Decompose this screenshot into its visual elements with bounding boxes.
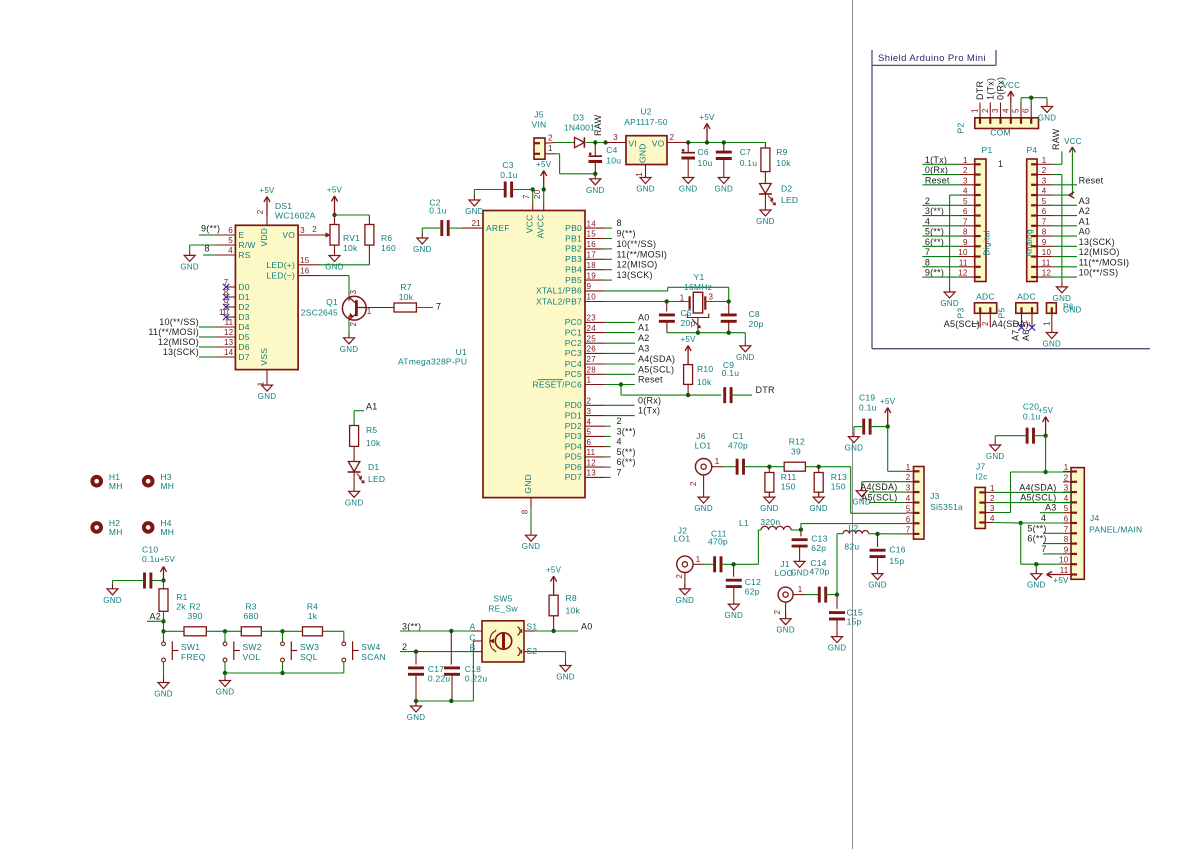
svg-text:MH: MH <box>109 527 123 537</box>
svg-text:1: 1 <box>367 307 372 316</box>
svg-text:GND: GND <box>407 713 426 722</box>
svg-text:4: 4 <box>925 216 930 226</box>
svg-text:A5(SCL): A5(SCL) <box>861 493 897 503</box>
svg-text:P2: P2 <box>956 123 966 134</box>
svg-text:6: 6 <box>1064 515 1069 524</box>
svg-text:GND: GND <box>216 688 235 697</box>
svg-text:3: 3 <box>349 290 358 295</box>
svg-text:1: 1 <box>990 484 995 493</box>
svg-text:J5: J5 <box>534 110 544 120</box>
svg-text:4: 4 <box>990 514 995 523</box>
svg-text:10: 10 <box>958 248 968 257</box>
svg-text:C16: C16 <box>889 545 905 555</box>
svg-text:150: 150 <box>831 482 846 492</box>
svg-text:1: 1 <box>1042 156 1047 165</box>
svg-text:3: 3 <box>587 407 592 416</box>
svg-text:13(SCK): 13(SCK) <box>1079 237 1115 247</box>
svg-text:+5V: +5V <box>546 566 562 575</box>
svg-text:VCC: VCC <box>1002 81 1020 90</box>
svg-text:2: 2 <box>906 473 911 482</box>
svg-text:LED(−): LED(−) <box>266 271 295 281</box>
svg-text:3(**): 3(**) <box>402 621 421 631</box>
svg-text:J4: J4 <box>1090 513 1100 523</box>
svg-text:GND: GND <box>586 186 605 195</box>
svg-text:A1: A1 <box>366 402 378 412</box>
svg-text:14: 14 <box>587 219 597 228</box>
svg-text:RAW: RAW <box>1051 128 1061 150</box>
svg-text:4: 4 <box>906 494 911 503</box>
svg-text:VO: VO <box>652 139 665 149</box>
svg-text:+5V: +5V <box>680 335 696 344</box>
svg-text:SW2: SW2 <box>243 642 262 652</box>
svg-text:C17: C17 <box>428 664 444 674</box>
svg-text:VCC: VCC <box>1064 137 1082 146</box>
svg-text:680: 680 <box>244 611 259 621</box>
svg-text:5: 5 <box>1012 108 1021 113</box>
svg-text:2: 2 <box>981 108 990 113</box>
svg-text:R9: R9 <box>776 147 787 157</box>
svg-text:12(MISO): 12(MISO) <box>1079 247 1120 257</box>
svg-text:A4(SDA): A4(SDA) <box>1019 482 1056 492</box>
svg-text:2: 2 <box>1042 166 1047 175</box>
svg-text:GND: GND <box>940 299 959 308</box>
svg-text:2: 2 <box>963 166 968 175</box>
svg-text:PB4: PB4 <box>565 265 582 275</box>
svg-text:P4: P4 <box>1026 145 1037 155</box>
svg-text:VSS: VSS <box>259 348 269 366</box>
svg-text:VO: VO <box>282 230 295 240</box>
svg-text:1: 1 <box>548 144 553 153</box>
svg-text:GND: GND <box>1038 114 1057 123</box>
svg-text:12: 12 <box>958 269 968 278</box>
svg-text:1: 1 <box>1042 321 1051 326</box>
svg-text:7: 7 <box>522 194 531 199</box>
svg-text:5: 5 <box>963 197 968 206</box>
svg-text:J7: J7 <box>976 462 986 472</box>
svg-text:10k: 10k <box>343 243 358 253</box>
svg-text:9(**): 9(**) <box>617 229 636 239</box>
svg-text:1: 1 <box>906 463 911 472</box>
svg-text:Shield Arduino Pro Mini: Shield Arduino Pro Mini <box>878 53 986 64</box>
svg-text:LOO: LOO <box>775 568 794 578</box>
svg-text:0(Rx): 0(Rx) <box>638 395 661 405</box>
svg-text:A0: A0 <box>1079 227 1091 237</box>
svg-text:A2: A2 <box>150 611 162 621</box>
svg-text:3: 3 <box>1042 176 1047 185</box>
svg-text:A6: A6 <box>1021 330 1031 342</box>
svg-text:A2: A2 <box>1079 206 1091 216</box>
svg-text:FREQ: FREQ <box>181 652 206 662</box>
svg-text:PC2: PC2 <box>565 338 582 348</box>
svg-text:10(**/SS): 10(**/SS) <box>159 317 199 327</box>
svg-text:SW3: SW3 <box>300 642 319 652</box>
svg-text:A2: A2 <box>638 333 650 343</box>
svg-text:13(SCK): 13(SCK) <box>163 347 199 357</box>
svg-text:A0: A0 <box>638 312 650 322</box>
svg-text:6: 6 <box>906 515 911 524</box>
svg-text:COM: COM <box>990 128 1011 138</box>
svg-text:7: 7 <box>1064 525 1069 534</box>
svg-text:GND: GND <box>676 596 695 605</box>
svg-text:0.1u: 0.1u <box>859 403 877 413</box>
svg-text:1(Tx): 1(Tx) <box>985 78 995 100</box>
svg-text:+5V: +5V <box>160 555 176 564</box>
svg-text:7: 7 <box>906 525 911 534</box>
svg-text:DTR: DTR <box>975 81 985 100</box>
svg-text:R4: R4 <box>307 602 318 612</box>
svg-text:17: 17 <box>587 251 597 260</box>
svg-text:1: 1 <box>963 156 968 165</box>
svg-text:C3: C3 <box>502 160 513 170</box>
svg-text:12(MISO): 12(MISO) <box>158 337 199 347</box>
svg-text:A3: A3 <box>1079 196 1091 206</box>
svg-text:320n: 320n <box>760 517 780 527</box>
svg-text:RESET/PC6: RESET/PC6 <box>533 379 583 389</box>
svg-text:GND: GND <box>465 207 484 216</box>
svg-text:12: 12 <box>1042 269 1052 278</box>
svg-text:GND: GND <box>1027 581 1046 590</box>
svg-text:GND: GND <box>736 353 755 362</box>
svg-text:6: 6 <box>1042 207 1047 216</box>
svg-text:4: 4 <box>1001 108 1010 113</box>
svg-text:+5V: +5V <box>536 160 552 169</box>
svg-text:7: 7 <box>1041 544 1046 554</box>
svg-text:+5V: +5V <box>1053 576 1069 585</box>
svg-text:XTAL2/PB7: XTAL2/PB7 <box>536 296 582 306</box>
svg-text:1k: 1k <box>308 611 318 621</box>
svg-text:39: 39 <box>791 447 801 457</box>
svg-text:16MHz: 16MHz <box>684 282 712 292</box>
svg-text:AVCC: AVCC <box>536 215 546 239</box>
svg-text:10k: 10k <box>697 377 712 387</box>
svg-text:R13: R13 <box>831 472 847 482</box>
svg-text:D3: D3 <box>573 113 584 123</box>
svg-text:1: 1 <box>1064 463 1069 472</box>
svg-text:R10: R10 <box>697 364 713 374</box>
svg-text:1: 1 <box>680 294 685 303</box>
svg-text:GND: GND <box>845 444 864 453</box>
svg-text:8: 8 <box>617 218 622 228</box>
svg-text:S2: S2 <box>527 646 538 656</box>
svg-text:4: 4 <box>228 246 233 255</box>
svg-text:L2: L2 <box>849 523 859 533</box>
svg-text:10: 10 <box>587 293 597 302</box>
svg-text:0(Rx): 0(Rx) <box>925 165 948 175</box>
svg-text:0.22u: 0.22u <box>465 674 488 684</box>
svg-text:390: 390 <box>188 611 203 621</box>
svg-text:GND: GND <box>986 452 1005 461</box>
svg-text:7: 7 <box>1042 217 1047 226</box>
svg-text:D5: D5 <box>238 332 249 342</box>
svg-text:4: 4 <box>1041 513 1046 523</box>
svg-text:3(**): 3(**) <box>617 426 636 436</box>
svg-text:3: 3 <box>991 108 1000 113</box>
svg-text:R/W: R/W <box>238 240 255 250</box>
svg-text:C13: C13 <box>811 534 827 544</box>
svg-text:6: 6 <box>228 226 233 235</box>
svg-text:1(Tx): 1(Tx) <box>925 155 947 165</box>
svg-text:R11: R11 <box>781 472 797 482</box>
svg-text:5: 5 <box>1042 197 1047 206</box>
svg-text:PC1: PC1 <box>565 327 582 337</box>
svg-text:8: 8 <box>1042 228 1047 237</box>
svg-text:9: 9 <box>587 282 592 291</box>
svg-text:5(**): 5(**) <box>617 447 636 457</box>
svg-text:15p: 15p <box>889 556 904 566</box>
svg-text:PB2: PB2 <box>565 244 582 254</box>
svg-text:PANEL/MAIN: PANEL/MAIN <box>1089 525 1142 535</box>
svg-text:SW1: SW1 <box>181 642 200 652</box>
svg-text:DTR: DTR <box>756 385 775 395</box>
svg-text:C7: C7 <box>740 147 751 157</box>
svg-text:C: C <box>469 632 475 642</box>
svg-text:GND: GND <box>413 245 432 254</box>
svg-text:13: 13 <box>587 469 597 478</box>
svg-text:11(**/MOSI): 11(**/MOSI) <box>1079 257 1130 267</box>
svg-text:470p: 470p <box>810 567 830 577</box>
svg-text:10k: 10k <box>399 292 414 302</box>
svg-text:10k: 10k <box>776 158 791 168</box>
svg-text:PD3: PD3 <box>565 431 582 441</box>
svg-text:GND: GND <box>809 504 828 513</box>
svg-text:2: 2 <box>256 209 265 214</box>
svg-text:2: 2 <box>1064 473 1069 482</box>
svg-text:7: 7 <box>617 467 622 477</box>
svg-text:GND: GND <box>636 185 655 194</box>
svg-text:C4: C4 <box>606 145 617 155</box>
svg-text:C1: C1 <box>732 431 743 441</box>
svg-text:SQL: SQL <box>300 652 318 662</box>
svg-text:7: 7 <box>963 217 968 226</box>
svg-text:4: 4 <box>1042 187 1047 196</box>
svg-text:20p: 20p <box>681 318 696 328</box>
svg-text:SW5: SW5 <box>493 594 512 604</box>
svg-text:PC4: PC4 <box>565 359 582 369</box>
svg-text:470p: 470p <box>708 537 728 547</box>
svg-text:9: 9 <box>1042 238 1047 247</box>
svg-text:11: 11 <box>1060 566 1069 575</box>
svg-text:E: E <box>238 230 244 240</box>
svg-text:23: 23 <box>587 314 597 323</box>
svg-text:3: 3 <box>300 226 305 235</box>
svg-text:GND: GND <box>258 392 277 401</box>
svg-text:GND: GND <box>1043 340 1062 349</box>
svg-text:C6: C6 <box>698 147 709 157</box>
svg-text:470p: 470p <box>728 441 748 451</box>
svg-text:12: 12 <box>587 458 597 467</box>
svg-text:10(**/SS): 10(**/SS) <box>1079 268 1119 278</box>
svg-text:9(**): 9(**) <box>201 224 220 234</box>
svg-text:2: 2 <box>675 574 684 579</box>
svg-text:LED(+): LED(+) <box>266 260 295 270</box>
svg-text:7: 7 <box>925 247 930 257</box>
svg-text:AP1117-50: AP1117-50 <box>624 117 668 127</box>
svg-text:25: 25 <box>587 334 597 343</box>
svg-text:Digital: Digital <box>982 230 992 255</box>
svg-text:GND: GND <box>180 262 199 271</box>
svg-text:15: 15 <box>587 230 597 239</box>
svg-text:1: 1 <box>798 585 803 594</box>
svg-text:PB0: PB0 <box>565 223 582 233</box>
svg-text:J6: J6 <box>696 431 706 441</box>
svg-text:2: 2 <box>773 610 782 615</box>
svg-text:PC0: PC0 <box>565 317 582 327</box>
svg-text:WC1602A: WC1602A <box>275 211 316 221</box>
svg-text:12: 12 <box>224 328 234 337</box>
svg-text:10: 10 <box>1042 248 1052 257</box>
svg-text:11(**/MOSI): 11(**/MOSI) <box>617 249 668 259</box>
svg-text:XTAL1/PB6: XTAL1/PB6 <box>536 286 582 296</box>
svg-text:13(SCK): 13(SCK) <box>617 270 653 280</box>
svg-text:27: 27 <box>587 355 597 364</box>
svg-text:MH: MH <box>160 527 174 537</box>
svg-text:3: 3 <box>1064 484 1069 493</box>
svg-text:R7: R7 <box>400 282 411 292</box>
svg-text:4: 4 <box>963 187 968 196</box>
svg-text:C10: C10 <box>142 545 158 555</box>
svg-text:GND: GND <box>756 217 775 226</box>
svg-text:Reset: Reset <box>925 175 950 185</box>
svg-text:A1: A1 <box>1079 216 1091 226</box>
svg-text:LED: LED <box>781 195 798 205</box>
svg-text:Reset: Reset <box>1079 175 1104 185</box>
svg-text:D7: D7 <box>238 352 249 362</box>
svg-text:R3: R3 <box>245 602 256 612</box>
svg-text:11: 11 <box>959 258 968 267</box>
svg-text:GND: GND <box>715 185 734 194</box>
svg-text:20p: 20p <box>749 319 764 329</box>
svg-text:0.22u: 0.22u <box>428 674 451 684</box>
svg-text:P5: P5 <box>997 308 1007 319</box>
svg-text:2: 2 <box>670 133 675 142</box>
svg-text:A1: A1 <box>638 323 650 333</box>
svg-text:1(Tx): 1(Tx) <box>638 406 660 416</box>
svg-text:5: 5 <box>906 504 911 513</box>
svg-text:LO1: LO1 <box>695 441 712 451</box>
svg-text:3: 3 <box>709 293 714 302</box>
svg-text:A5(SCL): A5(SCL) <box>638 364 674 374</box>
svg-text:D0: D0 <box>238 282 249 292</box>
svg-text:150: 150 <box>781 482 796 492</box>
svg-text:2: 2 <box>548 134 553 143</box>
svg-text:A5(SCL): A5(SCL) <box>944 319 980 329</box>
svg-text:RS: RS <box>238 250 250 260</box>
svg-text:R6: R6 <box>381 233 392 243</box>
svg-text:A0: A0 <box>581 621 593 631</box>
svg-text:3: 3 <box>906 484 911 493</box>
svg-text:28: 28 <box>587 366 597 375</box>
svg-text:MH: MH <box>160 481 174 491</box>
svg-text:A5(SCL): A5(SCL) <box>1020 493 1056 503</box>
svg-text:VDD: VDD <box>259 228 269 247</box>
svg-text:D2: D2 <box>238 302 249 312</box>
svg-text:VIN: VIN <box>532 120 547 130</box>
svg-text:11(**/MOSI): 11(**/MOSI) <box>148 327 199 337</box>
svg-text:1N4001: 1N4001 <box>564 122 595 132</box>
svg-text:GND: GND <box>694 504 713 513</box>
svg-text:2: 2 <box>312 225 317 234</box>
svg-text:GND: GND <box>345 498 364 507</box>
svg-text:S1: S1 <box>527 621 538 631</box>
svg-text:ADC: ADC <box>976 292 995 302</box>
svg-text:PD4: PD4 <box>565 441 582 451</box>
svg-text:+5V: +5V <box>699 113 715 122</box>
svg-text:3: 3 <box>990 504 995 513</box>
svg-text:82u: 82u <box>844 542 859 552</box>
svg-text:GND: GND <box>556 673 575 682</box>
svg-text:C8: C8 <box>749 309 760 319</box>
svg-text:6(**): 6(**) <box>617 457 636 467</box>
svg-text:GND: GND <box>679 185 698 194</box>
svg-text:J3: J3 <box>930 491 940 501</box>
svg-text:1: 1 <box>971 108 980 113</box>
svg-text:PB1: PB1 <box>565 233 582 243</box>
svg-text:160: 160 <box>381 243 396 253</box>
svg-text:2SC2645: 2SC2645 <box>301 308 338 318</box>
svg-text:2: 2 <box>925 196 930 206</box>
svg-text:3: 3 <box>613 133 618 142</box>
svg-text:+5V: +5V <box>259 186 275 195</box>
svg-text:D1: D1 <box>238 292 249 302</box>
svg-text:D6: D6 <box>238 342 249 352</box>
svg-text:5: 5 <box>228 236 233 245</box>
svg-text:11: 11 <box>587 448 596 457</box>
svg-text:GND: GND <box>325 263 344 272</box>
svg-text:8: 8 <box>205 244 210 254</box>
svg-text:0.1u: 0.1u <box>429 206 447 216</box>
svg-text:9(**): 9(**) <box>925 268 944 278</box>
svg-text:0.1u: 0.1u <box>500 170 518 180</box>
svg-text:A3: A3 <box>638 343 650 353</box>
svg-text:6(**): 6(**) <box>925 237 944 247</box>
svg-text:+5V: +5V <box>1038 406 1054 415</box>
svg-text:4: 4 <box>587 417 592 426</box>
svg-text:0.1u: 0.1u <box>740 158 758 168</box>
svg-text:GND: GND <box>340 345 359 354</box>
svg-text:1: 1 <box>998 159 1003 169</box>
svg-text:16: 16 <box>300 267 310 276</box>
svg-text:B: B <box>470 643 476 653</box>
svg-text:Q1: Q1 <box>326 297 338 307</box>
svg-text:ATmega328P-PU: ATmega328P-PU <box>398 357 467 367</box>
svg-text:62p: 62p <box>745 587 760 597</box>
svg-text:U2: U2 <box>640 107 651 117</box>
svg-text:6: 6 <box>963 207 968 216</box>
svg-text:24: 24 <box>587 324 597 333</box>
svg-text:C5: C5 <box>681 308 692 318</box>
svg-text:8: 8 <box>1064 535 1069 544</box>
svg-text:9: 9 <box>963 238 968 247</box>
svg-text:62p: 62p <box>811 543 826 553</box>
svg-text:+5V: +5V <box>880 397 896 406</box>
svg-text:0.1u: 0.1u <box>142 554 160 564</box>
svg-text:14: 14 <box>224 348 234 357</box>
svg-text:5: 5 <box>1064 504 1069 513</box>
svg-text:2: 2 <box>402 642 407 652</box>
svg-text:10k: 10k <box>566 606 581 616</box>
svg-text:5: 5 <box>587 428 592 437</box>
svg-text:D2: D2 <box>781 184 792 194</box>
svg-text:10k: 10k <box>366 438 381 448</box>
svg-text:6: 6 <box>1022 108 1031 113</box>
svg-text:8: 8 <box>925 257 930 267</box>
svg-text:10u: 10u <box>606 156 621 166</box>
svg-text:D3: D3 <box>238 312 249 322</box>
svg-text:LED: LED <box>368 474 385 484</box>
svg-text:R2: R2 <box>189 602 200 612</box>
svg-text:PD7: PD7 <box>565 472 582 482</box>
svg-text:VOL: VOL <box>243 652 261 662</box>
